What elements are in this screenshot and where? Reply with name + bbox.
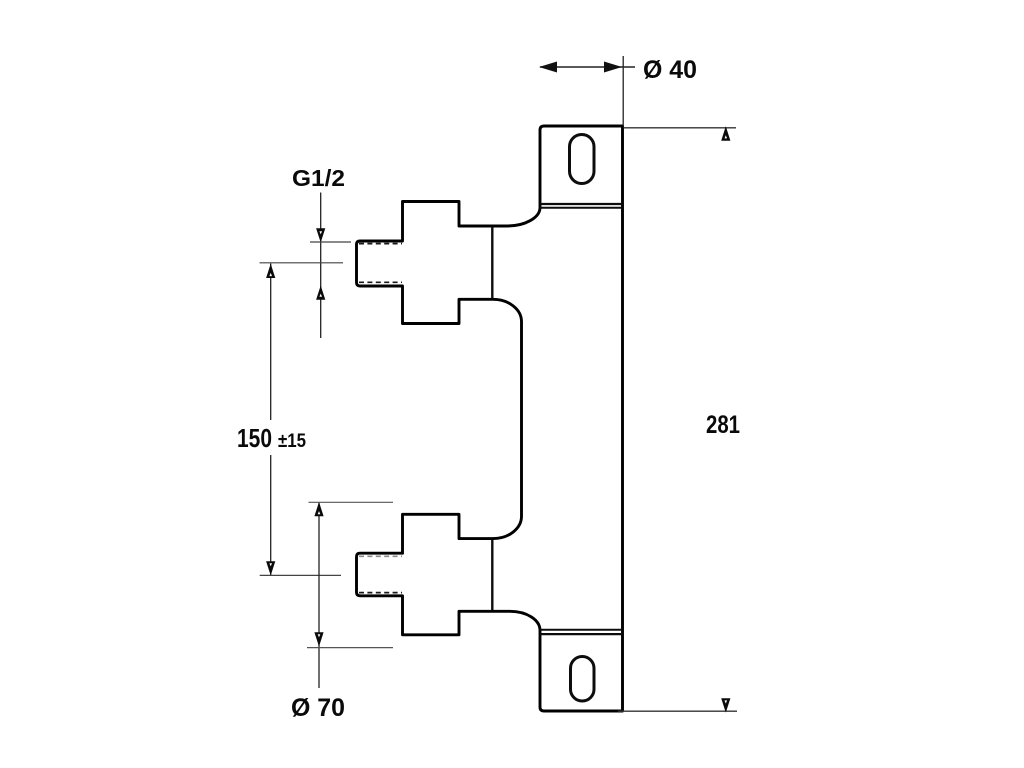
G1/2 tick line <box>310 241 351 243</box>
Ø70 lower tick line <box>307 647 393 649</box>
Ø40 left arrowhead <box>539 62 557 73</box>
lower valve centerline tick <box>260 574 341 576</box>
Ø70 upper tick line <box>309 501 394 503</box>
bottom bracket slot <box>571 657 595 702</box>
150 upper arrow (up) <box>266 264 275 278</box>
G1/2 upper arrow (down) <box>316 228 325 242</box>
label G1/2 <box>292 165 345 191</box>
lower nipple thread dashes <box>359 556 402 592</box>
dimension Ø40 arrow line <box>540 66 635 68</box>
label Ø 40 <box>643 56 697 84</box>
Ø40 right arrowhead <box>604 62 622 73</box>
281 top triangle marker <box>721 126 730 141</box>
150 dimension line <box>270 264 272 576</box>
top bracket slot <box>570 135 595 184</box>
Ø70 upper arrow (up) <box>314 502 323 516</box>
svg-text:281: 281 <box>706 411 740 439</box>
upper valve step inner edge <box>491 227 493 299</box>
150 lower arrow (down) <box>266 561 275 575</box>
lower valve step inner edge <box>491 540 493 611</box>
upper valve centerline tick <box>260 262 344 264</box>
281 bottom reference line <box>618 710 737 712</box>
G1/2 dimension line <box>320 193 322 339</box>
Ø70 lower arrow (down) <box>314 632 323 646</box>
top bracket bottom double line <box>540 204 623 208</box>
svg-text:150: 150 <box>237 423 272 453</box>
mixer body outline <box>357 126 623 711</box>
281 bottom triangle marker <box>721 698 730 712</box>
label 150 ±15 <box>237 423 306 453</box>
svg-text:Ø 40: Ø 40 <box>643 56 697 84</box>
upper nipple thread dashes <box>359 244 402 283</box>
Ø70 dimension line <box>318 502 320 688</box>
Ø40 extension line <box>622 56 624 126</box>
281 top reference line <box>624 127 737 129</box>
bottom bracket top double line <box>540 630 623 634</box>
label Ø 70 <box>291 694 345 722</box>
G1/2 lower arrow (up) <box>316 286 325 300</box>
svg-text:±15: ±15 <box>278 431 306 452</box>
svg-text:Ø 70: Ø 70 <box>291 694 345 722</box>
svg-text:G1/2: G1/2 <box>292 165 345 191</box>
label 281 <box>706 411 740 439</box>
